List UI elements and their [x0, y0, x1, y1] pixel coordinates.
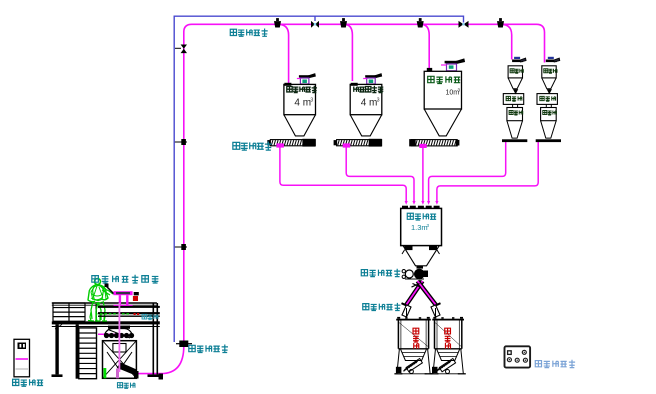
valve tee T2: [459, 21, 469, 28]
wire drop to silo S1: [278, 24, 289, 84]
svg-text:3: 3: [310, 98, 313, 104]
wire collector from S3: [422, 146, 424, 202]
bag hopper feeder (magenta): [114, 291, 139, 306]
joint J2 on left vertical: [175, 244, 187, 250]
svg-text:3: 3: [458, 88, 461, 93]
silo S3 10m3 weijing storage: [409, 59, 464, 148]
valve V5 on left vertical: [175, 45, 187, 54]
operator box: [505, 346, 531, 367]
wire drop to silo S2: [344, 24, 352, 81]
wire collector from U1: [429, 142, 506, 202]
valve three-way diverter V4: [497, 18, 504, 27]
control cabinet: [14, 339, 30, 377]
svg-text:3: 3: [427, 223, 430, 228]
svg-text:1.3m: 1.3m: [411, 223, 428, 232]
label anti-bridge discharge valve: [361, 269, 400, 277]
valve tee T1: [311, 16, 319, 28]
label three-way flap valve: [363, 303, 401, 311]
silo S1 4m3: [267, 74, 317, 148]
svg-text:3: 3: [377, 98, 380, 104]
wire drop to silo S3: [421, 24, 430, 68]
pipe booster P1: [176, 341, 192, 348]
valve discharge V6 (anti-bridge): [402, 266, 428, 279]
label sender: [117, 383, 135, 389]
valve three-way diverter V3: [417, 18, 424, 27]
svg-text:4 m: 4 m: [294, 98, 311, 109]
label screw conveyor: [233, 142, 272, 151]
label pipe booster: [189, 345, 228, 353]
svg-text:4 m: 4 m: [361, 98, 378, 109]
valve three-way flap diverter: [402, 281, 441, 317]
mixer M2: [431, 317, 466, 374]
wire drop to unit U1: [501, 24, 512, 59]
platform bag station structure: [52, 279, 160, 379]
mixer M1: [394, 317, 432, 374]
wire pink drop line: [118, 303, 120, 372]
junction inlet arrows at weigh hopper: [405, 201, 439, 205]
sender hopper assembly: [103, 326, 139, 379]
unit U1 bag dump tower: [502, 57, 527, 142]
valve three-way diverter V1: [274, 18, 281, 27]
label three-way switch valve: [230, 29, 267, 37]
valve three-way diverter V2: [340, 18, 347, 27]
wire collector from U2: [437, 142, 538, 202]
silo S2 4m3: [334, 74, 384, 148]
label electric control system: [13, 379, 44, 386]
wire bag unit stub: [98, 333, 120, 335]
wire booster to sender: [138, 346, 184, 374]
coupling on sender line: [159, 374, 164, 380]
label site operator box: [535, 360, 575, 368]
wire blue control line: [174, 16, 463, 342]
wire diverter to mixer stubs: [407, 308, 436, 317]
joint J1 on left vertical: [175, 139, 187, 145]
wire collector from S2: [346, 147, 414, 202]
wire magenta main manifold: [184, 24, 545, 341]
wire collector from S1: [280, 147, 406, 202]
unit U2 bag dump tower: [536, 57, 561, 142]
hopper weigh hopper 1.3m3: [401, 206, 442, 266]
vibrating feeder table: [98, 306, 160, 320]
label mixer M1 (red): [413, 328, 419, 349]
label mixer M2 (red): [445, 328, 451, 349]
label bag dump station: [92, 275, 159, 283]
